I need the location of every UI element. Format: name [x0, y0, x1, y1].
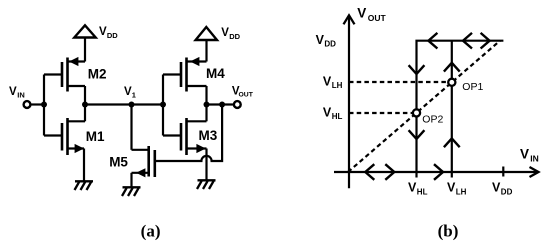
svg-text:V: V: [316, 33, 325, 47]
svg-text:M4: M4: [206, 66, 225, 81]
svg-text:(b): (b): [438, 222, 459, 241]
svg-text:V: V: [99, 26, 107, 38]
svg-text:IN: IN: [530, 153, 539, 163]
svg-text:DD: DD: [229, 32, 240, 41]
svg-text:OP2: OP2: [422, 113, 443, 125]
svg-text:DD: DD: [324, 39, 336, 48]
svg-text:LH: LH: [456, 187, 467, 196]
svg-text:V: V: [323, 74, 332, 88]
svg-text:V: V: [221, 27, 229, 39]
svg-text:OP1: OP1: [462, 81, 483, 93]
svg-text:V: V: [447, 181, 456, 195]
svg-text:M3: M3: [199, 128, 218, 143]
svg-text:M5: M5: [109, 154, 128, 169]
svg-text:(a): (a): [141, 222, 161, 241]
svg-text:V: V: [492, 181, 501, 195]
svg-text:1: 1: [132, 90, 136, 99]
svg-text:V: V: [520, 147, 529, 162]
svg-text:DD: DD: [501, 187, 513, 196]
svg-text:M2: M2: [88, 66, 107, 81]
svg-text:V: V: [408, 181, 417, 195]
svg-text:IN: IN: [17, 91, 25, 100]
svg-text:OUT: OUT: [368, 13, 387, 23]
svg-text:LH: LH: [332, 81, 343, 90]
svg-text:V: V: [357, 5, 366, 20]
svg-text:V: V: [124, 86, 132, 98]
svg-text:M1: M1: [86, 129, 105, 144]
svg-text:HL: HL: [332, 112, 343, 121]
svg-text:V: V: [9, 86, 17, 98]
svg-text:V: V: [323, 106, 332, 120]
svg-text:OUT: OUT: [239, 91, 254, 98]
svg-text:DD: DD: [107, 31, 118, 40]
svg-text:HL: HL: [417, 187, 428, 196]
